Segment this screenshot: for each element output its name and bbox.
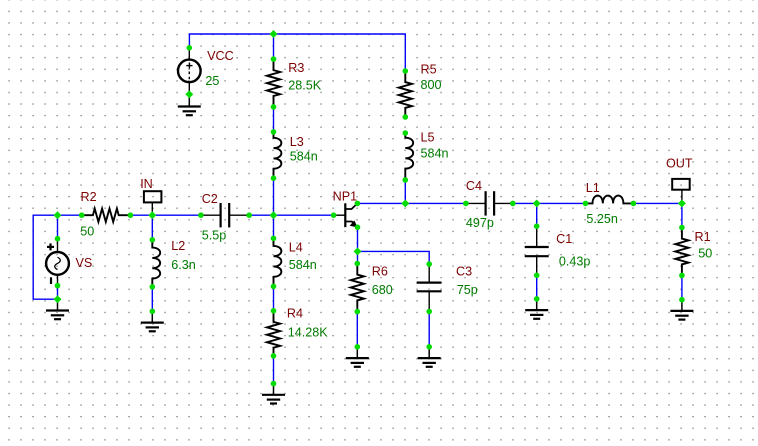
junction node emitter / R6 / C3 xyxy=(354,247,362,255)
wire C3 bottom to ground xyxy=(428,312,430,347)
wire main node to NP1 base xyxy=(274,214,334,216)
wire top rail xyxy=(189,34,405,71)
junction node VCC ground xyxy=(185,90,193,98)
resistor R6 xyxy=(351,264,364,312)
pin dot L5 bottom xyxy=(403,177,409,183)
wire L1 to OUT node xyxy=(633,202,682,204)
wire NP1 collector line to C4 xyxy=(357,202,466,204)
wire emitter node across to C3 xyxy=(358,251,430,264)
svg-text:5.25n: 5.25n xyxy=(586,212,618,226)
pin dot C1 ground xyxy=(534,296,540,302)
node IN xyxy=(144,191,162,215)
inductor L1 xyxy=(586,196,634,204)
svg-text:R6: R6 xyxy=(372,265,388,279)
junction node main / IN / L2 xyxy=(148,211,156,219)
ground below R4 xyxy=(262,384,285,404)
pin dot L5 top xyxy=(403,130,409,136)
pin dot NP1 base xyxy=(331,212,337,218)
node OUT xyxy=(672,179,690,204)
pin dot C2 left xyxy=(198,212,204,218)
sine source VS xyxy=(46,239,69,286)
svg-text:75p: 75p xyxy=(457,283,478,297)
ground below R6 xyxy=(346,347,369,367)
pin dot C1 top xyxy=(534,223,540,229)
svg-text:C3: C3 xyxy=(456,265,472,279)
svg-text:584n: 584n xyxy=(289,258,317,272)
svg-text:L2: L2 xyxy=(171,239,185,253)
junction node collector / L5 xyxy=(401,199,409,207)
ground below L2 xyxy=(141,311,164,331)
svg-text:IN: IN xyxy=(140,177,153,191)
junction node OUT / L1 / R1 xyxy=(678,199,686,207)
junction node collector / C1 xyxy=(533,199,541,207)
junction node top rail / R3 xyxy=(270,30,278,38)
wire R4 bottom to ground xyxy=(273,356,275,384)
pin dot L1 right xyxy=(631,201,637,207)
svg-text:C1: C1 xyxy=(556,232,572,246)
wire C1 node down to C1 xyxy=(536,203,538,226)
resistor R5 xyxy=(399,71,412,117)
pin dot VS bottom xyxy=(55,283,61,289)
wire IN node down to L2 xyxy=(151,215,153,240)
wire L5 bottom to collector node xyxy=(404,180,406,203)
wire L4 bottom to R4 top xyxy=(273,286,275,310)
wire L3 bottom to main node xyxy=(273,178,275,215)
pin dot R3 bottom xyxy=(271,104,277,110)
wire R2 to IN node xyxy=(130,214,152,216)
wire main node to L4 top xyxy=(273,215,275,238)
junction node main / VS xyxy=(54,211,62,219)
svg-text:OUT: OUT xyxy=(666,157,693,171)
wire VS loop left xyxy=(33,215,57,299)
pin dot R6 bottom xyxy=(355,309,361,315)
inductor L5 xyxy=(405,133,413,180)
svg-text:5.5p: 5.5p xyxy=(202,228,227,242)
svg-text:800: 800 xyxy=(421,78,442,92)
svg-text:L3: L3 xyxy=(290,135,304,149)
pin dot C3 bottom xyxy=(426,309,432,315)
wire main line VS node to R2 xyxy=(58,214,82,216)
wire VS plus to main line xyxy=(57,215,59,239)
pin dot L2 top xyxy=(150,237,156,243)
svg-text:0.43p: 0.43p xyxy=(559,254,591,268)
pin dot R5 bottom xyxy=(403,114,409,120)
ground below C1 xyxy=(525,299,548,319)
wire NP1 emitter down xyxy=(357,227,359,251)
pin dot L3 top xyxy=(271,129,277,135)
pin dot C3 top xyxy=(426,261,432,267)
wire VS minus to ground node xyxy=(57,286,59,300)
pin dot R1 ground xyxy=(679,297,685,303)
svg-text:14.28K: 14.28K xyxy=(288,326,329,340)
transistor NP1 xyxy=(334,203,358,227)
resistor R3 xyxy=(267,59,280,107)
pin dot R5 top xyxy=(403,68,409,74)
svg-text:R3: R3 xyxy=(288,61,304,75)
svg-text:584n: 584n xyxy=(421,147,449,161)
pin dot L4 top xyxy=(271,236,277,242)
pin dot R6 ground xyxy=(355,344,361,350)
wire OUT node down to R1 xyxy=(681,203,683,227)
battery VCC xyxy=(178,48,201,95)
wire R6 bottom to ground xyxy=(356,312,358,347)
ground below R1 xyxy=(670,300,693,320)
svg-text:R5: R5 xyxy=(421,62,437,76)
pin dot C1 bottom xyxy=(534,273,540,279)
svg-text:L5: L5 xyxy=(421,130,435,144)
NP1 emitter arrow xyxy=(350,220,358,227)
pin dot L1 left xyxy=(583,201,589,207)
pin dot R2 right xyxy=(128,212,134,218)
pin dot VCC top xyxy=(187,45,193,51)
pin dot R4 top xyxy=(271,308,277,314)
wire C1 bottom to ground xyxy=(536,275,538,299)
svg-text:R1: R1 xyxy=(695,230,711,244)
svg-text:680: 680 xyxy=(372,283,393,297)
pin dot C2 right xyxy=(246,212,252,218)
pin dot NP1 emitter xyxy=(355,225,361,231)
pin dot R2 left xyxy=(79,212,85,218)
svg-text:50: 50 xyxy=(698,246,712,260)
svg-text:C2: C2 xyxy=(202,192,218,206)
pin dot C4 right xyxy=(510,201,516,207)
wire C2 to main node xyxy=(249,214,273,216)
pin dot NP1 collector xyxy=(355,201,361,207)
pin dot L4 bottom xyxy=(271,284,277,290)
pin dot L2 ground xyxy=(150,309,156,315)
svg-text:50: 50 xyxy=(80,225,94,239)
svg-text:L1: L1 xyxy=(586,181,600,195)
inductor L4 xyxy=(274,238,282,286)
ground below VS xyxy=(46,299,69,319)
pin dot R1 top xyxy=(679,225,685,231)
wire R1 bottom to ground xyxy=(681,275,683,299)
svg-text:25: 25 xyxy=(205,74,219,88)
junction node VS ground xyxy=(54,295,62,303)
wire R3 bottom to L3 top xyxy=(273,107,275,132)
capacitor C2 xyxy=(201,203,249,227)
pin dot R4 bottom xyxy=(271,353,277,359)
svg-text:6.3n: 6.3n xyxy=(171,258,196,272)
wire emitter node to R6 xyxy=(357,251,359,263)
pin dot C3 ground xyxy=(426,344,432,350)
inductor L2 xyxy=(152,240,160,287)
wire L2 bottom to ground xyxy=(151,287,153,312)
pin dot R1 bottom xyxy=(679,273,685,279)
svg-text:497p: 497p xyxy=(466,216,494,230)
svg-text:L4: L4 xyxy=(289,241,303,255)
svg-text:28.5K: 28.5K xyxy=(288,79,322,93)
svg-text:NP1: NP1 xyxy=(333,190,358,204)
capacitor C1 xyxy=(525,226,549,275)
capacitor C4 xyxy=(466,191,513,215)
resistor R4 xyxy=(267,311,280,356)
resistor R2 xyxy=(82,209,131,222)
pin dot R4 ground xyxy=(271,381,277,387)
pin dot L2 bottom xyxy=(150,284,156,290)
capacitor C3 xyxy=(417,264,442,311)
junction node main / C2 / L3 / L4 xyxy=(270,211,278,219)
svg-text:VS: VS xyxy=(76,256,93,270)
pin dot R3 top xyxy=(271,56,277,62)
pin dot C4 left xyxy=(463,201,469,207)
pin dot L3 bottom xyxy=(271,175,277,181)
svg-text:R4: R4 xyxy=(287,306,303,320)
svg-text:584n: 584n xyxy=(290,150,318,164)
ground below C3 xyxy=(418,347,441,367)
resistor R1 xyxy=(675,228,688,276)
inductor L3 xyxy=(274,132,282,178)
wire top rail to R3 xyxy=(273,34,275,59)
pin dot R6 top xyxy=(355,261,361,267)
svg-text:R2: R2 xyxy=(81,190,97,204)
svg-text:C4: C4 xyxy=(466,179,482,193)
wire IN node to C2 xyxy=(152,214,201,216)
wire C1 node to L1 xyxy=(537,202,586,204)
pin dot VS top xyxy=(55,236,61,242)
ground below VCC xyxy=(178,94,201,115)
wire C4 to C1 node xyxy=(513,202,537,204)
svg-text:VCC: VCC xyxy=(207,49,234,63)
